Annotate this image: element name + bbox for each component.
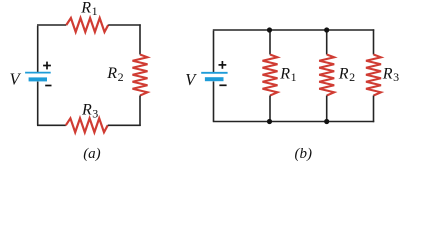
wire: top side (a) right of R1 — [108, 24, 141, 26]
svg-text:2: 2 — [349, 70, 355, 84]
junction dot: bottom of R2 branch — [324, 119, 329, 124]
battery V plates (a) — [25, 73, 51, 82]
svg-text:R: R — [279, 65, 290, 82]
svg-text:R: R — [80, 0, 91, 17]
label (b) — [295, 146, 313, 162]
label R1 — [80, 0, 97, 18]
wire: bottom rail (b) — [213, 121, 374, 123]
svg-text:(a): (a) — [83, 146, 101, 162]
wire: branch R2 (b) upper stub — [326, 30, 328, 55]
resistor R3 (b) — [366, 55, 381, 96]
battery polarity plus (a) — [43, 62, 51, 70]
label V (b) — [185, 70, 197, 89]
battery polarity minus (b) — [219, 84, 226, 86]
wire: left side (a) lower — [37, 82, 39, 126]
junction dot: top of R1 branch — [267, 27, 272, 32]
resistor R2 — [133, 55, 148, 96]
label R2 (b) — [338, 66, 355, 85]
wire: left side (a) upper — [37, 26, 39, 72]
junction dot: bottom of R1 branch — [267, 119, 272, 124]
wire: top side (a) left of R1 — [37, 24, 66, 26]
label R3 (b) — [382, 66, 399, 85]
svg-text:(b): (b) — [295, 146, 313, 162]
wire: right side (a) lower — [139, 96, 141, 127]
wire: branch R2 (b) lower stub — [326, 96, 328, 122]
label R2 — [106, 65, 123, 84]
svg-text:1: 1 — [291, 70, 297, 84]
svg-text:R: R — [106, 65, 117, 82]
wire: right side (a) upper — [139, 24, 141, 54]
label R3 — [81, 101, 98, 120]
wire: right side (b) upper — [373, 29, 375, 54]
resistor R3 — [66, 118, 108, 132]
wire: right side (b) lower — [373, 96, 375, 123]
svg-text:V: V — [185, 70, 197, 89]
label R1 (b) — [279, 65, 296, 84]
svg-text:R: R — [382, 66, 393, 83]
battery V plates (b) — [201, 73, 227, 81]
wire: top rail (b) — [213, 29, 374, 31]
battery polarity plus (b) — [219, 61, 227, 69]
wire: bottom side (a) right of R3 — [108, 124, 141, 126]
junction dot: top of R2 branch — [324, 27, 329, 32]
resistor R1 (b) — [263, 55, 278, 96]
svg-text:2: 2 — [118, 70, 124, 84]
svg-text:3: 3 — [92, 106, 98, 120]
svg-text:1: 1 — [92, 4, 98, 18]
wire: branch R1 (b) lower stub — [269, 96, 271, 122]
resistor R2 (b) — [319, 55, 334, 96]
wire: branch R1 (b) upper stub — [269, 30, 271, 55]
svg-text:3: 3 — [393, 70, 399, 84]
wire: left side (b) upper — [213, 31, 215, 72]
wire: bottom side (a) left of R3 — [37, 124, 66, 126]
svg-text:V: V — [10, 70, 22, 89]
battery polarity minus (a) — [45, 85, 51, 87]
label V (a) — [10, 70, 22, 89]
svg-text:R: R — [81, 101, 92, 118]
label (a) — [83, 146, 101, 162]
resistor R1 — [66, 18, 108, 32]
wire: left side (b) lower — [213, 81, 215, 121]
svg-text:R: R — [338, 66, 349, 83]
